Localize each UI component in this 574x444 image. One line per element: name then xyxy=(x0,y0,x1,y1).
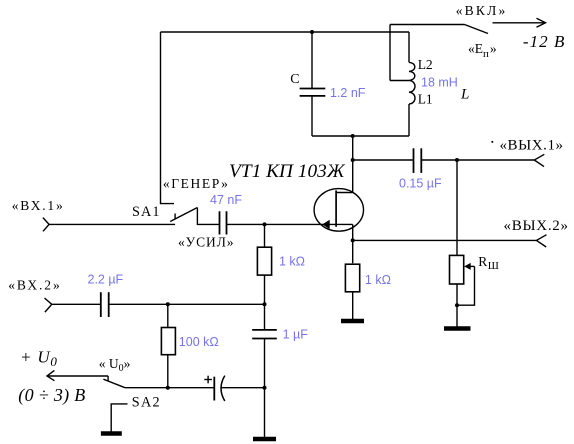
svg-text:18 mH: 18 mH xyxy=(421,76,458,90)
switch VKL xyxy=(456,3,506,60)
capacitor 1uF xyxy=(252,304,308,387)
wire VYKH2 xyxy=(353,239,537,241)
svg-text:«Еп»: «Еп» xyxy=(468,41,497,60)
svg-text:«ВЫХ.2»: «ВЫХ.2» xyxy=(504,218,569,234)
resistor 1k source xyxy=(345,240,391,319)
inductor L tapped L1 L2 18mH xyxy=(390,25,469,137)
resistor 1k gate xyxy=(257,224,305,304)
junction node top bus xyxy=(310,30,314,34)
junction node gate xyxy=(263,222,267,226)
wire VKH2 xyxy=(52,303,101,305)
power -12V arrow xyxy=(493,18,566,51)
capacitor 2.2uF xyxy=(88,273,124,318)
terminal VYKH2 xyxy=(504,218,569,247)
svg-text:47 nF: 47 nF xyxy=(210,193,242,207)
svg-text:2.2 µF: 2.2 µF xyxy=(88,273,124,287)
junction node 100k bottom xyxy=(166,386,170,390)
svg-text:-12 В: -12 В xyxy=(523,32,565,51)
svg-text:C: C xyxy=(290,72,299,87)
svg-text:«УСИЛ»: «УСИЛ» xyxy=(178,234,234,249)
svg-text:SA1: SA1 xyxy=(132,204,160,220)
svg-text:1 kΩ: 1 kΩ xyxy=(279,255,305,269)
wire tank left top xyxy=(311,32,313,89)
svg-text:0.15 µF: 0.15 µF xyxy=(399,176,442,190)
svg-text:RШ: RШ xyxy=(478,254,499,272)
svg-text:«ВХ.2»: «ВХ.2» xyxy=(8,277,60,292)
wire top bus xyxy=(161,31,410,33)
wire tank left bottom xyxy=(311,96,313,136)
terminal VKH1 xyxy=(12,198,63,231)
wire gate xyxy=(227,223,265,225)
terminal VYKH1 xyxy=(491,137,563,166)
svg-text:«ГЕНЕР»: «ГЕНЕР» xyxy=(163,176,228,191)
capacitor electrolytic xyxy=(204,376,225,401)
svg-text:1 µF: 1 µF xyxy=(283,328,309,342)
wire U0 bus xyxy=(125,387,214,389)
ground bottom xyxy=(253,437,276,442)
svg-text:L2: L2 xyxy=(418,57,433,72)
junction node 100k top xyxy=(166,302,170,306)
svg-text:«ВЫХ.1»: «ВЫХ.1» xyxy=(500,137,564,153)
svg-text:L: L xyxy=(460,87,469,103)
transistor VT1 KP103Zh xyxy=(229,161,363,241)
junction node out1 xyxy=(455,158,459,162)
wire bottom ground xyxy=(264,388,266,437)
svg-text:1 kΩ: 1 kΩ xyxy=(365,273,391,287)
wire VKH2 bus xyxy=(109,303,265,305)
svg-text:+ U0: + U0 xyxy=(20,348,58,370)
svg-text:1.2 nF: 1.2 nF xyxy=(330,86,366,100)
junction node drain xyxy=(351,158,355,162)
junction node source xyxy=(351,238,355,242)
wire VKH1 xyxy=(49,223,175,225)
svg-text:SA2: SA2 xyxy=(132,395,160,411)
junction node bottom xyxy=(263,386,267,390)
ground Rsh xyxy=(444,326,471,331)
wire drain vertical xyxy=(352,136,354,193)
svg-text:« U0»: « U0» xyxy=(99,356,131,374)
wire supply top xyxy=(390,24,465,26)
switch SA2 xyxy=(99,356,160,432)
switch SA1 xyxy=(132,176,234,250)
capacitor 47nF xyxy=(210,193,242,235)
ground source resistor xyxy=(341,319,364,324)
svg-text:«ВХ.1»: «ВХ.1» xyxy=(12,198,63,213)
svg-text:L1: L1 xyxy=(418,91,433,106)
capacitor C 1.2nF xyxy=(290,72,366,100)
junction node tank bottom xyxy=(351,134,355,138)
svg-text:«ВКЛ»: «ВКЛ» xyxy=(456,3,506,18)
wire tank bottom xyxy=(312,135,409,137)
wire GENER branch xyxy=(161,32,175,204)
wire electrolytic to C5 xyxy=(222,387,265,389)
junction node C5 top xyxy=(263,302,267,306)
source U0 arrow xyxy=(18,348,108,407)
svg-text:VT1 КП 103Ж: VT1 КП 103Ж xyxy=(229,161,346,182)
svg-text:100 kΩ: 100 kΩ xyxy=(179,335,219,349)
ground SA2 xyxy=(101,431,122,436)
terminal VKH2 xyxy=(8,277,60,312)
svg-text:(0 ÷ 3) В: (0 ÷ 3) В xyxy=(18,385,85,406)
resistor 100k xyxy=(161,304,218,387)
capacitor 0.15uF xyxy=(353,148,535,190)
resistor Rsh rheostat xyxy=(450,160,499,327)
